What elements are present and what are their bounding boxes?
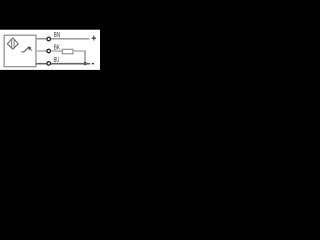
svg-text:BU: BU — [54, 55, 60, 64]
plus terminal — [92, 37, 96, 39]
proximity sensor diamond symbol — [7, 38, 18, 49]
wire corner down — [84, 51, 86, 63]
minus terminal — [92, 63, 94, 65]
junction dot — [84, 62, 87, 65]
sensor enclosure box — [4, 35, 36, 66]
terminal circle BK — [47, 49, 51, 53]
black backdrop — [0, 0, 100, 100]
diamond inner line right — [13, 40, 15, 48]
load resistor box — [62, 49, 73, 53]
wire BN to plus — [51, 38, 90, 40]
switch arrow tail — [30, 49, 32, 51]
terminal circle BN — [47, 37, 51, 41]
switch contact symbol — [21, 47, 29, 52]
circuit schematic: 3-wire proximity sensor wiring diagram — [0, 0, 100, 100]
wire BU from box — [36, 63, 47, 65]
wire load to corner — [73, 50, 86, 52]
diamond inner line left — [11, 40, 13, 48]
wire BK from box — [36, 50, 47, 52]
white drawing band — [0, 30, 100, 70]
switch arrowhead — [28, 47, 31, 50]
wire BU to minus — [51, 63, 90, 65]
wire BN from box — [36, 38, 47, 40]
wire BK to load — [51, 50, 63, 52]
svg-text:BN: BN — [54, 30, 60, 39]
terminal circle BU — [47, 62, 51, 66]
svg-text:BK: BK — [54, 42, 60, 51]
